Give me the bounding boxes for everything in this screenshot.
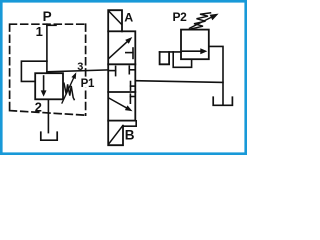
svg-text:2: 2 <box>35 99 42 114</box>
wire P2 outlet <box>209 46 223 104</box>
svg-text:A: A <box>124 11 133 25</box>
cell3 closed port T <box>130 96 135 98</box>
pilot loop P2 <box>173 52 191 67</box>
divider 2 <box>108 91 135 93</box>
valve P2 body <box>181 30 209 60</box>
svg-text:P: P <box>43 9 52 24</box>
svg-text:3: 3 <box>77 61 83 73</box>
cell1 arrow <box>109 40 129 58</box>
valve cell B bottom (narrow) <box>108 121 123 146</box>
dashed enclosure P <box>10 24 86 115</box>
wire port 1 vertical <box>46 24 48 73</box>
wire return long <box>135 81 223 83</box>
svg-text:1: 1 <box>36 24 43 39</box>
wire port B <box>123 121 136 126</box>
svg-text:P1: P1 <box>81 78 95 90</box>
cell1 closed port T <box>126 52 133 54</box>
spring P1 <box>64 83 74 99</box>
wire port 1 top stub <box>47 24 56 26</box>
wire pilot branch <box>21 61 47 81</box>
cell2 left port T <box>109 70 116 72</box>
divider 1 <box>108 63 135 65</box>
svg-text:B: B <box>125 128 135 143</box>
label 3 <box>77 61 85 70</box>
P1 adjust arrow <box>62 76 75 103</box>
tank small <box>160 52 170 64</box>
tank left <box>41 132 57 140</box>
cell A diagonal <box>109 11 122 24</box>
valve cell A top (narrow) <box>108 10 122 31</box>
valve main body <box>108 31 135 120</box>
P1 internal arrow <box>43 76 45 91</box>
label P1 <box>80 78 93 88</box>
wire port 3 horizontal <box>47 70 108 72</box>
spring P2 <box>192 13 211 29</box>
cell2 right port T upper <box>129 69 135 71</box>
svg-text:P2: P2 <box>173 10 188 24</box>
cell3 arrow <box>109 98 129 109</box>
P2 adjust arrow <box>190 18 211 29</box>
cell B diagonal <box>109 126 123 144</box>
P2 internal arrow <box>183 50 201 52</box>
valve P1 body <box>35 73 63 99</box>
wire P2 inlet <box>160 51 181 53</box>
tank right <box>213 97 232 105</box>
frame border <box>1 1 245 153</box>
cell2 right port T lower <box>131 85 136 87</box>
wire port 2 vertical <box>47 99 49 132</box>
